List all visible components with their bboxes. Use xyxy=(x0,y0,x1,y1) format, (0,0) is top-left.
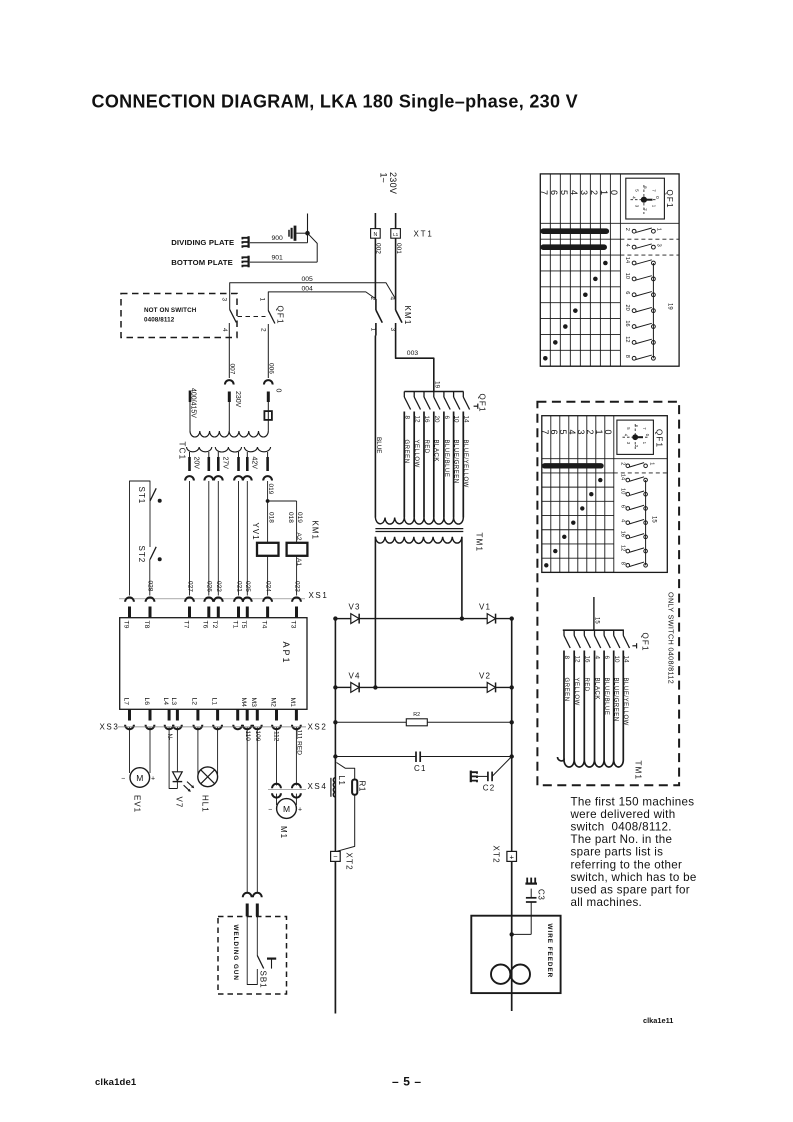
label 400/415V tap xyxy=(189,391,192,403)
svg-text:QF1: QF1 xyxy=(477,394,486,413)
svg-text:M1: M1 xyxy=(289,698,296,708)
switch QF1 tap selector bus xyxy=(404,391,463,393)
svg-text:1: 1 xyxy=(599,190,609,195)
node V2 row right xyxy=(510,685,514,689)
board AP1 xyxy=(120,618,307,710)
table1 common line 19 xyxy=(652,263,654,358)
inductor L1 xyxy=(333,778,335,797)
svg-text:L7: L7 xyxy=(122,698,129,706)
wire 112 xyxy=(276,727,278,785)
capacitor C3 xyxy=(530,889,532,898)
svg-text:112: 112 xyxy=(273,731,280,742)
alt TM1 winding loops xyxy=(558,757,624,767)
QF1 selector contact 12 xyxy=(413,392,415,398)
svg-text:L3: L3 xyxy=(170,698,177,706)
table1 right section dashed separators xyxy=(620,238,679,240)
svg-text:ST1: ST1 xyxy=(137,487,146,505)
table2 position dots xyxy=(598,478,602,482)
svg-text:2: 2 xyxy=(585,430,595,435)
welding gun connector pair 110 xyxy=(243,893,252,897)
LED V7 wires xyxy=(169,727,177,788)
svg-text:M: M xyxy=(283,804,290,814)
table1 grid verticals xyxy=(549,174,551,366)
svg-text:16: 16 xyxy=(619,531,625,537)
svg-text:001: 001 xyxy=(395,243,402,254)
svg-text:L1: L1 xyxy=(393,232,399,237)
svg-text:14: 14 xyxy=(622,656,629,664)
svg-text:230V: 230V xyxy=(234,391,241,408)
wire L1 from supply xyxy=(395,213,397,229)
svg-text:1: 1 xyxy=(656,228,662,231)
svg-text:XT1: XT1 xyxy=(414,230,434,239)
svg-text:4: 4 xyxy=(569,190,579,195)
svg-text:– 5 –: – 5 – xyxy=(392,1075,422,1089)
svg-text:15: 15 xyxy=(651,516,657,523)
XS1 pin at x=129.5 xyxy=(125,597,134,601)
svg-text:TC1: TC1 xyxy=(177,442,186,461)
svg-text:CONNECTION DIAGRAM, LKA 180 Si: CONNECTION DIAGRAM, LKA 180 Single–phase… xyxy=(92,92,578,112)
svg-text:−: − xyxy=(333,852,338,861)
welding gun connector pair 109 xyxy=(253,893,262,897)
node 019 junction xyxy=(266,499,270,503)
svg-text:018: 018 xyxy=(287,512,294,523)
terminal XT2 plus xyxy=(507,851,517,861)
TM1 secondary right lead xyxy=(461,537,463,619)
C3 branch to plus wire xyxy=(512,933,532,935)
box WIRE FEEDER xyxy=(471,916,560,993)
svg-text:all machines.: all machines. xyxy=(571,896,643,909)
svg-text:BLUE/YELLOW: BLUE/YELLOW xyxy=(462,440,468,488)
svg-text:ST2: ST2 xyxy=(137,546,146,564)
connector pair 27V left tap xyxy=(214,476,223,480)
svg-text:L2: L2 xyxy=(191,698,198,706)
svg-text:10: 10 xyxy=(619,488,625,494)
svg-text:−: − xyxy=(121,776,125,783)
svg-text:6: 6 xyxy=(549,430,559,435)
svg-text:025: 025 xyxy=(244,581,251,592)
svg-text:V7: V7 xyxy=(174,797,183,809)
svg-text:002: 002 xyxy=(375,243,382,254)
svg-text:026: 026 xyxy=(206,581,213,592)
alternative QF1 bus xyxy=(563,629,624,631)
svg-text:HL1: HL1 xyxy=(200,795,209,813)
svg-text:XS2: XS2 xyxy=(308,722,328,731)
svg-text:A2: A2 xyxy=(295,533,302,541)
svg-text:BLACK: BLACK xyxy=(593,678,599,700)
svg-text:XS4: XS4 xyxy=(308,782,328,791)
svg-text:BLACK: BLACK xyxy=(433,440,439,462)
svg-text:110: 110 xyxy=(244,731,251,742)
svg-text:XT2: XT2 xyxy=(345,853,354,871)
connector XS1 line xyxy=(119,598,305,600)
svg-text:WELDING GUN: WELDING GUN xyxy=(232,925,239,981)
svg-text:referring to the other: referring to the other xyxy=(571,858,683,871)
TC1 secondary winding 20V xyxy=(187,447,212,452)
terminal XT1 L1 xyxy=(391,229,401,239)
svg-text:20: 20 xyxy=(624,305,630,311)
svg-text:QF1: QF1 xyxy=(640,633,649,652)
chassis symbol bottom plate xyxy=(248,256,250,268)
svg-text:switch, which has to be: switch, which has to be xyxy=(571,871,697,884)
XS1 pin at x=189.5 xyxy=(185,597,194,601)
svg-text:clka1de1: clka1de1 xyxy=(95,1077,137,1088)
svg-text:V1: V1 xyxy=(479,603,491,612)
svg-text:C2: C2 xyxy=(483,784,496,793)
svg-text:−: − xyxy=(268,807,272,814)
svg-text:N-: N- xyxy=(166,734,173,741)
XS1 pin at x=247.3 xyxy=(243,597,252,601)
svg-text:022: 022 xyxy=(215,581,222,592)
svg-text:YELLOW: YELLOW xyxy=(573,678,579,706)
table2 contact symbols xyxy=(626,464,630,468)
wire 019 from 42V tap xyxy=(267,481,269,543)
contactor KM1 contact 3-4 xyxy=(395,299,397,310)
svg-text:M4: M4 xyxy=(240,698,247,708)
table2 grid verticals xyxy=(550,416,552,573)
LED V7 xyxy=(173,772,183,781)
svg-text:switch 0408/8112.: switch 0408/8112. xyxy=(571,821,672,834)
svg-text:YELLOW: YELLOW xyxy=(413,440,419,468)
svg-text:0408/8112: 0408/8112 xyxy=(144,317,175,324)
svg-text:EV1: EV1 xyxy=(132,795,141,813)
QF1 selector contact 8 xyxy=(403,392,405,398)
svg-text:R1: R1 xyxy=(357,781,366,792)
svg-text:1: 1 xyxy=(594,430,604,435)
svg-text:GREEN: GREEN xyxy=(403,440,409,464)
LED arrows xyxy=(184,785,190,791)
svg-text:19: 19 xyxy=(667,303,673,310)
switch QF1 contact 3-4 xyxy=(230,310,237,323)
welding minus wire xyxy=(334,861,336,1013)
connector pair 27V right tap xyxy=(234,476,243,480)
svg-text:8: 8 xyxy=(563,656,570,660)
svg-text:BLUE: BLUE xyxy=(375,437,382,453)
wire 110 xyxy=(246,727,248,893)
svg-text:L1: L1 xyxy=(210,698,217,706)
alt QF1 contact 8 xyxy=(563,630,565,635)
svg-text:C1: C1 xyxy=(414,764,427,773)
svg-text:3: 3 xyxy=(389,328,396,332)
thermal switch ST1 circuit wire xyxy=(130,481,151,596)
svg-text:L4: L4 xyxy=(162,698,169,706)
transformer TM1 secondary winding xyxy=(375,537,462,544)
svg-text:0: 0 xyxy=(609,190,619,195)
wire feed motor M1 xyxy=(277,799,297,819)
wire L (N) from supply xyxy=(374,213,376,229)
capacitor C3 chassis xyxy=(525,882,537,884)
svg-text:QF1: QF1 xyxy=(665,190,674,209)
svg-text:023: 023 xyxy=(293,581,300,592)
capacitor C2 xyxy=(492,757,512,777)
switch table QF1 (switch 0408/8112) xyxy=(542,416,668,573)
svg-text:901: 901 xyxy=(272,255,284,262)
svg-text:T1: T1 xyxy=(231,621,238,629)
svg-text:V3: V3 xyxy=(349,603,361,612)
wire 901 xyxy=(250,261,317,263)
svg-text:1: 1 xyxy=(258,298,265,302)
svg-text:T3: T3 xyxy=(289,621,296,629)
svg-text:006: 006 xyxy=(268,363,275,374)
svg-text:ONLY SWITCH 0408/8112: ONLY SWITCH 0408/8112 xyxy=(666,592,675,684)
XS1 pin at x=208.8 xyxy=(204,597,213,601)
QF1 selector contact 16 xyxy=(423,392,425,398)
svg-text:TM1: TM1 xyxy=(633,761,642,781)
welding plus wire xyxy=(511,861,513,1011)
svg-text:005: 005 xyxy=(302,276,314,283)
earth stub wire xyxy=(307,214,309,234)
svg-text:10: 10 xyxy=(453,416,460,424)
QF1 selector contact 14 xyxy=(462,392,464,398)
svg-text:AP1: AP1 xyxy=(281,642,291,665)
svg-text:10: 10 xyxy=(613,656,620,664)
connector pair 20V left tap xyxy=(185,476,194,480)
svg-text:14: 14 xyxy=(619,474,625,480)
terminal XT1 N xyxy=(371,229,381,239)
svg-text:R2: R2 xyxy=(413,712,420,718)
alt QF1 contact 10 xyxy=(613,630,615,635)
svg-text:C3: C3 xyxy=(537,889,546,900)
svg-text:5: 5 xyxy=(558,430,568,435)
fan motor EV1 xyxy=(130,768,150,788)
svg-text:T6: T6 xyxy=(202,621,209,629)
table1 closed bars rows 1-2 xyxy=(543,228,606,234)
dashed box WELDING GUN xyxy=(218,917,287,995)
TM1 core xyxy=(375,528,463,530)
svg-text:021: 021 xyxy=(235,581,242,592)
table2 closed bar row 1 xyxy=(545,463,601,468)
node secondary left to V4 row xyxy=(373,685,377,689)
svg-text:XS1: XS1 xyxy=(309,591,329,600)
svg-text:004: 004 xyxy=(302,286,314,293)
svg-text:109: 109 xyxy=(254,731,261,742)
node V3 row left xyxy=(333,616,337,620)
svg-text:3: 3 xyxy=(579,190,589,195)
lamp HL1 wires xyxy=(197,727,199,774)
svg-text:8: 8 xyxy=(624,355,630,358)
svg-text:T5: T5 xyxy=(240,621,247,629)
svg-text:3: 3 xyxy=(220,298,227,302)
table2 common line 15 xyxy=(645,480,647,565)
svg-text:TM1: TM1 xyxy=(475,533,484,553)
svg-text:6: 6 xyxy=(443,416,450,420)
connector XS4 line xyxy=(268,789,306,791)
QF1 selector contact 6 xyxy=(443,392,445,398)
svg-text:L6: L6 xyxy=(143,698,150,706)
contactor coil KM1 xyxy=(287,543,308,556)
svg-text:BOTTOM PLATE: BOTTOM PLATE xyxy=(171,258,233,267)
svg-text:0: 0 xyxy=(274,389,281,393)
svg-text:7: 7 xyxy=(540,430,550,435)
XS1 pin at x=218.3 xyxy=(214,597,223,601)
svg-text:3: 3 xyxy=(576,430,586,435)
thermal switch ST1 xyxy=(150,488,156,501)
fan motor EV1 wires xyxy=(129,727,131,773)
XS1 pin at x=150 xyxy=(146,597,155,601)
svg-text:V2: V2 xyxy=(479,671,491,680)
svg-text:12: 12 xyxy=(413,416,420,424)
svg-text:1~: 1~ xyxy=(379,173,389,183)
svg-text:10: 10 xyxy=(624,273,630,279)
svg-text:4: 4 xyxy=(221,328,228,332)
XS1 pin at x=238.5 xyxy=(234,597,243,601)
svg-text:15: 15 xyxy=(593,617,599,624)
svg-text:1: 1 xyxy=(648,462,654,465)
svg-text:clka1e11: clka1e11 xyxy=(643,1016,673,1025)
junction node ground xyxy=(305,231,310,236)
wire BLUE to TM1 xyxy=(374,336,376,518)
node V4 row left xyxy=(333,685,337,689)
wire 109 xyxy=(256,727,258,893)
terminal XT2 minus xyxy=(331,851,341,861)
connector XS2/XS3 line xyxy=(118,726,306,728)
svg-text:14: 14 xyxy=(462,416,469,424)
switch table QF1 (delivered switch) xyxy=(540,174,679,366)
wire 004 xyxy=(268,292,376,311)
alt QF1 contact 14 xyxy=(622,630,624,635)
svg-text:27V: 27V xyxy=(222,457,229,470)
svg-text:3: 3 xyxy=(656,244,662,247)
svg-text:L1: L1 xyxy=(337,776,346,786)
svg-text:018: 018 xyxy=(267,512,274,523)
chassis symbol dividing plate xyxy=(248,236,250,248)
svg-text:2: 2 xyxy=(259,328,266,332)
svg-text:6: 6 xyxy=(603,656,610,660)
svg-text:16: 16 xyxy=(423,416,430,424)
TC1 secondary winding 42V xyxy=(244,447,270,452)
connector pair on 230V tap xyxy=(225,380,234,384)
capacitor C1 xyxy=(335,756,416,758)
svg-text:QF1: QF1 xyxy=(655,429,664,448)
XS4 pins xyxy=(272,784,281,788)
positive bus wire xyxy=(511,619,513,852)
svg-text:+: + xyxy=(298,807,302,814)
svg-text:20: 20 xyxy=(433,416,440,424)
connector pair 42V left tap xyxy=(243,476,252,480)
svg-text:WIRE FEEDER: WIRE FEEDER xyxy=(546,924,553,979)
wire 002 xyxy=(374,238,376,299)
svg-text:M2: M2 xyxy=(269,698,276,708)
dashed box NOT ON SWITCH 0408/8112 xyxy=(121,294,237,338)
XS1 pin at x=296.5 xyxy=(292,597,301,601)
TC1 secondary winding 27V xyxy=(215,447,241,452)
transformer TM1 primary winding xyxy=(375,518,463,525)
svg-text:7: 7 xyxy=(539,190,549,195)
XS1 pin at x=267.6 xyxy=(263,597,272,601)
svg-text:KM1: KM1 xyxy=(310,521,319,540)
svg-text:4: 4 xyxy=(567,430,577,435)
svg-text:2: 2 xyxy=(619,462,625,465)
svg-text:111 RED: 111 RED xyxy=(296,730,303,756)
contactor KM1 contact 1-2 xyxy=(375,299,377,310)
lamp HL1 xyxy=(198,767,218,787)
negative bus wire xyxy=(334,619,336,852)
svg-text:used as spare part for: used as spare part for xyxy=(571,883,690,896)
svg-text:028: 028 xyxy=(147,581,154,592)
svg-text:20V: 20V xyxy=(193,457,200,470)
connector pair 42V right tap xyxy=(263,476,272,480)
svg-text:4: 4 xyxy=(624,244,630,247)
svg-text:400/415V: 400/415V xyxy=(190,388,197,418)
AP1 bottom pin (nc) xyxy=(236,709,239,720)
svg-text:T2: T2 xyxy=(211,621,218,629)
svg-text:M3: M3 xyxy=(250,698,257,708)
table2 dial xyxy=(617,420,654,454)
svg-text:SB1: SB1 xyxy=(258,971,267,989)
svg-text:NOT ON SWITCH: NOT ON SWITCH xyxy=(144,307,197,314)
svg-text:The first 150 machines: The first 150 machines xyxy=(571,796,695,809)
svg-text:8: 8 xyxy=(619,562,625,565)
table2 grid horizontals xyxy=(542,458,668,460)
connector pair 20V right tap xyxy=(204,476,213,480)
svg-text:8: 8 xyxy=(403,416,410,420)
svg-text:19: 19 xyxy=(433,381,440,389)
table2 right section dashed separator xyxy=(614,472,668,474)
suppressor / screen bars xyxy=(296,232,306,234)
resistor R1 branch xyxy=(337,763,355,780)
svg-text:T8: T8 xyxy=(143,621,150,629)
svg-text:024: 024 xyxy=(264,581,271,592)
svg-text:spare parts list is: spare parts list is xyxy=(571,846,664,859)
svg-text:RED: RED xyxy=(583,678,589,692)
wire 001 xyxy=(395,238,397,299)
svg-text:BLUE/BLUE: BLUE/BLUE xyxy=(443,440,449,478)
svg-text:230V: 230V xyxy=(388,172,398,194)
table1 position dots xyxy=(603,261,608,266)
wire 15 to alternative QF1 xyxy=(593,597,595,630)
svg-text:BLUE/GREEN: BLUE/GREEN xyxy=(613,678,619,722)
wire 230V tap to winding xyxy=(228,402,230,431)
welding gun wires xyxy=(247,916,257,984)
svg-text:T9: T9 xyxy=(122,621,129,629)
svg-text:6: 6 xyxy=(619,505,625,508)
svg-text:007: 007 xyxy=(229,364,236,375)
svg-text:12: 12 xyxy=(573,656,580,664)
svg-text:14: 14 xyxy=(624,257,630,263)
svg-text:003: 003 xyxy=(407,350,419,357)
wire from ground node to 901 xyxy=(308,233,318,262)
svg-text:2: 2 xyxy=(624,228,630,231)
svg-text:T7: T7 xyxy=(182,621,189,629)
svg-text:M1: M1 xyxy=(279,826,288,839)
svg-text:12: 12 xyxy=(624,336,630,342)
svg-text:XT2: XT2 xyxy=(492,846,501,864)
dashed box ONLY SWITCH 0408/8112 xyxy=(537,402,679,786)
TM1 secondary left lead xyxy=(374,537,376,688)
valve coil YV1 xyxy=(257,543,279,556)
alt QF1 contact 6 xyxy=(603,630,605,635)
wire 005 xyxy=(230,283,396,310)
wire 111 RED xyxy=(295,727,297,785)
svg-text:6: 6 xyxy=(549,190,559,195)
svg-text:6: 6 xyxy=(624,291,630,294)
svg-text:0: 0 xyxy=(603,430,613,435)
alt QF1 contact 16 xyxy=(583,630,585,635)
svg-text:2: 2 xyxy=(369,297,376,301)
svg-text:BLUE/BLUE: BLUE/BLUE xyxy=(603,678,609,716)
svg-text:DIVIDING PLATE: DIVIDING PLATE xyxy=(171,238,234,247)
svg-text:T4: T4 xyxy=(260,621,267,629)
svg-text:12: 12 xyxy=(619,545,625,551)
svg-text:4: 4 xyxy=(619,519,625,522)
QF1 selector contact 20 xyxy=(433,392,435,398)
svg-text:5: 5 xyxy=(559,190,569,195)
QF1 mechanical linkage xyxy=(238,316,266,318)
svg-text:BLUE/YELLOW: BLUE/YELLOW xyxy=(622,678,628,726)
svg-text:1: 1 xyxy=(369,328,376,332)
fuse on 0 tap xyxy=(264,411,272,420)
svg-text:027: 027 xyxy=(186,581,193,592)
svg-text:YV1: YV1 xyxy=(251,523,260,541)
